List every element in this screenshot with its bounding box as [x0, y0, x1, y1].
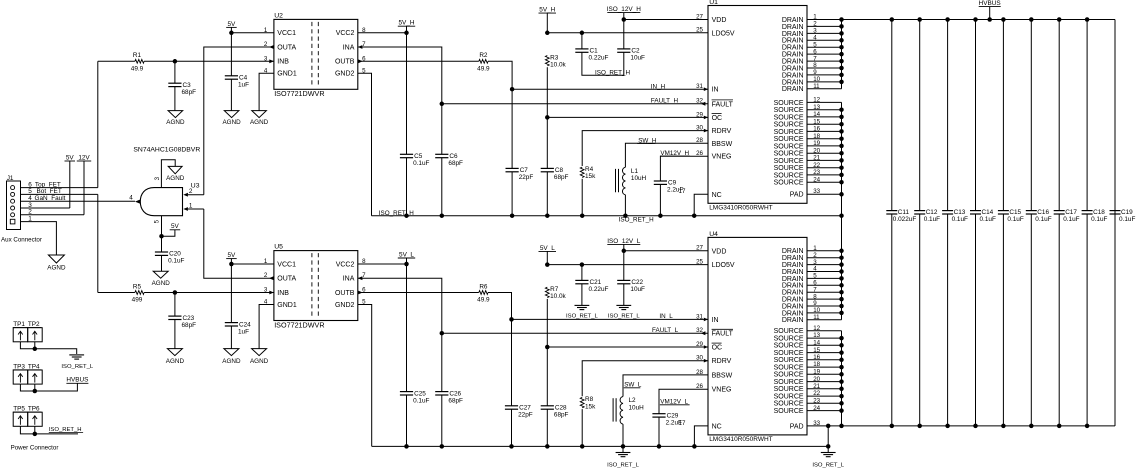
- junction R1 C3: [173, 59, 178, 64]
- wire J1 pin1 to AGND: [21, 222, 57, 255]
- wire 5V_L down to C25: [406, 264, 408, 392]
- svg-text:5V_L: 5V_L: [399, 251, 414, 258]
- wire BBSW_L to L2: [623, 375, 708, 397]
- wire FAULT_L row: [442, 332, 708, 334]
- U5 pin 3 INB arrow: [269, 291, 274, 295]
- junction C8 rail: [545, 213, 550, 218]
- junction U1 DRAIN 5: [839, 45, 844, 50]
- junction U4 DRAIN 9: [839, 304, 844, 309]
- U1 DRAIN pin stubs: [807, 20, 842, 89]
- svg-text:10uF: 10uF: [630, 286, 645, 293]
- junction C25 rail: [404, 444, 409, 449]
- test points TP3 TP4: [13, 363, 42, 384]
- svg-text:SOURCE: SOURCE: [774, 151, 804, 158]
- AND gate U3 body: [140, 183, 199, 216]
- junction C15 top: [1001, 17, 1006, 22]
- svg-text:25: 25: [696, 259, 703, 266]
- capacitor C8: [541, 167, 569, 181]
- wire L1 to rail: [624, 195, 626, 216]
- capacitor C18: [1082, 209, 1108, 223]
- wire U2 VCC2 to 5V_H: [358, 32, 407, 34]
- net label ISO_RET_H at C1 C2: [595, 69, 630, 76]
- svg-text:ISO_RET_H: ISO_RET_H: [379, 210, 414, 217]
- wire PAD riser: [827, 426, 829, 447]
- svg-text:C7: C7: [520, 167, 529, 174]
- resistor R5: [132, 283, 144, 303]
- resistor R4: [580, 166, 596, 180]
- junction 5V_L LDO5V: [545, 262, 550, 267]
- net flag HVBUS: [979, 0, 1001, 20]
- bus right edge vertical: [1114, 20, 1116, 426]
- svg-text:15k: 15k: [585, 403, 596, 410]
- junction NC rail: [692, 213, 697, 218]
- wire C16 bottom: [1030, 214, 1032, 426]
- wire C4 top: [230, 33, 232, 76]
- svg-text:TP6: TP6: [28, 406, 40, 413]
- ground ISO_RET_L at C22: [608, 305, 640, 319]
- svg-text:PAD: PAD: [790, 192, 804, 199]
- ground AGND at J1 pin1: [47, 255, 66, 272]
- svg-text:SOURCE: SOURCE: [774, 172, 804, 179]
- svg-text:10uF: 10uF: [630, 55, 645, 62]
- wire rail to ground stem at L2: [622, 446, 624, 452]
- svg-text:12V: 12V: [78, 154, 90, 161]
- capacitor C6: [435, 153, 463, 167]
- power connector caption: [11, 444, 59, 451]
- svg-text:NC: NC: [712, 192, 722, 199]
- U5 pin 2 OUTA arrow: [269, 276, 274, 280]
- svg-text:FAULT: FAULT: [712, 101, 734, 108]
- U3 pin 2 number: [189, 188, 193, 195]
- svg-text:26: 26: [696, 383, 703, 390]
- capacitor C4: [225, 75, 249, 89]
- capacitor C16: [1026, 209, 1052, 223]
- svg-text:10.0k: 10.0k: [550, 293, 566, 300]
- capacitor C9: [654, 180, 684, 194]
- wire U2 OUTA to U3 pin2: [204, 47, 274, 195]
- junction U1 SOURCE 23: [839, 180, 844, 185]
- wire rail to ground stem at rail end: [827, 446, 829, 452]
- wire C19 top: [1114, 20, 1116, 211]
- wire U4 NC to rail: [694, 426, 708, 447]
- resistor R6: [477, 283, 490, 303]
- junction U4 DRAIN 7: [839, 290, 844, 295]
- svg-text:0.1uF: 0.1uF: [1035, 216, 1051, 223]
- junction C12 bottom: [917, 424, 922, 429]
- junction C17 bottom: [1057, 424, 1062, 429]
- junction U4 DRAIN 10: [839, 311, 844, 316]
- svg-text:SOURCE: SOURCE: [774, 122, 804, 129]
- svg-text:SOURCE: SOURCE: [774, 357, 804, 364]
- U5 pin 6 OUTB arrow: [358, 291, 363, 295]
- U4 right pin names and numbers: [774, 245, 821, 430]
- svg-text:LDO5V: LDO5V: [712, 262, 735, 269]
- ground AGND at U5 GND1: [250, 349, 269, 366]
- svg-text:SOURCE: SOURCE: [774, 107, 804, 114]
- svg-text:BBSW: BBSW: [712, 372, 733, 379]
- junction R7 OC: [545, 345, 550, 350]
- svg-text:VDD: VDD: [712, 248, 727, 255]
- svg-text:C5: C5: [414, 153, 423, 160]
- svg-text:PAD: PAD: [790, 423, 804, 430]
- wire C16 top: [1030, 20, 1032, 211]
- capacitor C25: [400, 390, 430, 404]
- wire C19 bottom: [1114, 214, 1116, 426]
- wire J1 pin4 GaN_Fault to gate U3: [21, 200, 136, 202]
- ground ISO_RET_L at rail end: [812, 453, 844, 468]
- svg-text:TP3: TP3: [13, 363, 25, 370]
- svg-text:AGND: AGND: [250, 358, 269, 365]
- svg-text:C16: C16: [1037, 209, 1049, 216]
- svg-text:25: 25: [696, 27, 703, 34]
- junction L2 rail: [621, 444, 626, 449]
- capacitor C17: [1054, 209, 1080, 223]
- U1 SOURCE pin stubs: [807, 102, 842, 182]
- capacitor C29: [652, 412, 682, 426]
- wire TP2 stub: [34, 342, 36, 349]
- power flag 5V_L at U5: [398, 251, 415, 264]
- svg-text:Aux Connector: Aux Connector: [1, 236, 42, 243]
- wire R1 to U2 INB: [144, 60, 274, 62]
- test points TP1 TP2: [13, 321, 42, 342]
- svg-text:17: 17: [679, 188, 686, 195]
- capacitor C22: [617, 279, 645, 293]
- junction C7 rail: [510, 213, 515, 218]
- junction C17 top: [1057, 17, 1062, 22]
- junction U4 SOURCE 13: [839, 336, 844, 341]
- svg-text:68pF: 68pF: [554, 412, 569, 419]
- junction R6 IN_L: [509, 317, 514, 322]
- svg-text:10uH: 10uH: [629, 404, 645, 411]
- junction C18 top: [1085, 17, 1090, 22]
- power flag 5V at U5: [226, 252, 237, 264]
- svg-text:VCC2: VCC2: [336, 261, 355, 268]
- junction U1 SOURCE 19: [839, 151, 844, 156]
- net label SW_L: [624, 382, 642, 389]
- ground AGND at C3: [166, 111, 185, 127]
- svg-text:SOURCE: SOURCE: [774, 379, 804, 386]
- junction U4 SOURCE 20: [839, 387, 844, 392]
- wire C14 bottom: [975, 214, 977, 426]
- svg-text:68pF: 68pF: [182, 322, 197, 329]
- ground AGND at U3 pin3: [166, 166, 185, 182]
- svg-text:C1: C1: [590, 48, 599, 55]
- svg-text:GND1: GND1: [277, 302, 297, 309]
- svg-text:R5: R5: [133, 283, 142, 290]
- svg-text:0.22uF: 0.22uF: [589, 55, 609, 62]
- J1 pin numbers and net names: [28, 181, 65, 222]
- svg-text:U5: U5: [274, 244, 283, 251]
- svg-text:SOURCE: SOURCE: [774, 335, 804, 342]
- capacitor C1: [575, 48, 608, 62]
- svg-text:68pF: 68pF: [448, 397, 463, 404]
- svg-text:49.9: 49.9: [477, 66, 490, 73]
- svg-text:DRAIN: DRAIN: [782, 24, 804, 31]
- junction 5V C24: [229, 262, 234, 267]
- capacitor C11: [886, 209, 916, 223]
- svg-text:C8: C8: [555, 167, 564, 174]
- svg-text:17: 17: [679, 420, 686, 427]
- wire FAULT_H row: [442, 103, 708, 105]
- junction U4 SOURCE 14: [839, 343, 844, 348]
- svg-text:INA: INA: [343, 276, 355, 283]
- wire C5 to rail: [406, 158, 408, 216]
- power flag 5V_H at R3: [539, 7, 557, 33]
- svg-text:27: 27: [696, 245, 703, 252]
- svg-text:SOURCE: SOURCE: [774, 408, 804, 415]
- svg-text:AGND: AGND: [250, 119, 269, 126]
- junction U1 DRAIN 6: [839, 52, 844, 57]
- svg-text:0.022uF: 0.022uF: [893, 216, 917, 223]
- capacitor C7: [506, 167, 534, 181]
- junction R5 C23: [173, 290, 178, 295]
- svg-text:VNEG: VNEG: [712, 387, 732, 394]
- svg-text:R3: R3: [550, 54, 559, 61]
- svg-text:R8: R8: [585, 396, 594, 403]
- capacitor C12: [914, 209, 940, 223]
- junction 5V_H LDO5V: [545, 31, 550, 36]
- svg-text:ISO7721DWVR: ISO7721DWVR: [274, 320, 324, 329]
- junction U1 SOURCE 16: [839, 129, 844, 134]
- svg-text:C6: C6: [449, 153, 458, 160]
- svg-text:49.9: 49.9: [477, 297, 490, 304]
- wire OC row: [547, 116, 708, 118]
- junction U1 SOURCE 21: [839, 165, 844, 170]
- inductor L1: [616, 167, 647, 195]
- resistor R3: [545, 54, 566, 68]
- resistor R2: [477, 52, 490, 72]
- svg-text:5V: 5V: [66, 154, 75, 161]
- junction U1 SOURCE 18: [839, 144, 844, 149]
- wire C6 to rail: [441, 158, 443, 216]
- svg-text:OC: OC: [712, 115, 723, 122]
- svg-text:27: 27: [696, 13, 703, 20]
- junction 5V C4: [229, 31, 234, 36]
- svg-text:R7: R7: [550, 286, 559, 293]
- junction U4 DRAIN 1: [839, 249, 844, 254]
- svg-text:SOURCE: SOURCE: [774, 165, 804, 172]
- wire C17 bottom: [1058, 214, 1060, 426]
- capacitor C28: [541, 405, 569, 419]
- wire U3 pin 1 stub: [188, 208, 204, 210]
- wire C18 top: [1086, 20, 1088, 211]
- junction C21 LDO5V: [580, 262, 585, 267]
- svg-text:GND2: GND2: [335, 302, 355, 309]
- svg-text:R2: R2: [479, 52, 488, 59]
- wire C24 to AGND: [230, 326, 232, 349]
- svg-text:C3: C3: [183, 82, 192, 89]
- wire R8 to rail: [581, 409, 583, 446]
- net label IN_H: [651, 83, 666, 90]
- wire U5 VCC2 to 5V_L: [358, 263, 407, 265]
- svg-text:5V_H: 5V_H: [539, 7, 555, 14]
- junction C11 bottom: [890, 424, 895, 429]
- svg-text:ISO_RET_L: ISO_RET_L: [566, 314, 598, 320]
- junction C15 bottom: [1001, 424, 1006, 429]
- wire U3 pin 5 to 5V: [161, 216, 163, 237]
- svg-text:0.1uF: 0.1uF: [924, 216, 940, 223]
- svg-text:0.1uF: 0.1uF: [413, 397, 429, 404]
- svg-text:C23: C23: [183, 315, 195, 322]
- svg-text:29: 29: [696, 341, 703, 348]
- svg-text:3: 3: [154, 176, 161, 180]
- junction C16 top: [1029, 17, 1034, 22]
- junction C9 rail: [658, 213, 663, 218]
- svg-text:FAULT_L: FAULT_L: [652, 327, 679, 334]
- svg-text:NC: NC: [712, 423, 722, 430]
- capacitor C24: [225, 321, 251, 335]
- wire C22 top: [623, 251, 625, 281]
- U1 right pin names and numbers: [774, 14, 821, 199]
- wire C22 to ground: [623, 284, 625, 306]
- svg-text:DRAIN: DRAIN: [782, 86, 804, 93]
- wire 5V flag link: [162, 231, 175, 236]
- svg-text:AGND: AGND: [152, 280, 171, 287]
- wire C12 top: [919, 20, 921, 211]
- capacitor C2: [617, 48, 645, 62]
- test points TP5 TP6: [13, 406, 42, 427]
- wire TP3 TP4 to HVBUS: [20, 383, 77, 391]
- junction HVBUS stem: [987, 17, 992, 22]
- net label ISO_RET_L at TP1 TP2: [61, 364, 93, 370]
- svg-text:C28: C28: [555, 405, 567, 412]
- junction C5 rail: [404, 213, 409, 218]
- svg-text:OUTB: OUTB: [335, 290, 355, 297]
- net label FAULT_L: [652, 327, 679, 334]
- svg-text:30: 30: [696, 125, 703, 132]
- U4 OC pin arrow: [704, 345, 708, 349]
- capacitor C14: [970, 209, 996, 223]
- svg-text:L2: L2: [629, 397, 637, 404]
- svg-text:C26: C26: [449, 390, 461, 397]
- wire L2 to rail: [622, 424, 624, 446]
- svg-text:3: 3: [264, 55, 268, 62]
- svg-text:10uH: 10uH: [631, 175, 647, 182]
- U1 FAULT pin arrow: [701, 102, 706, 106]
- wire U5 INA to C26: [358, 278, 442, 391]
- wire switch node vertical: [841, 102, 843, 319]
- junction TP1-TP2: [33, 347, 38, 352]
- svg-text:0.1uF: 0.1uF: [168, 258, 184, 265]
- GaN power stage U1: [708, 0, 807, 212]
- svg-text:C2: C2: [631, 48, 640, 55]
- U4 IN pin arrow: [704, 318, 708, 322]
- svg-text:22pF: 22pF: [519, 174, 534, 181]
- net label SW_H underline: [637, 143, 655, 145]
- wire C15 bottom: [1002, 214, 1004, 426]
- svg-text:C14: C14: [982, 209, 994, 216]
- junction U1 SOURCE 20: [839, 158, 844, 163]
- svg-text:C25: C25: [414, 390, 426, 397]
- power flag 5V at J1: [65, 154, 76, 208]
- svg-text:FAULT_H: FAULT_H: [651, 97, 679, 104]
- wire C9 to rail: [659, 184, 661, 215]
- svg-text:49.9: 49.9: [131, 66, 144, 73]
- svg-text:0.1uF: 0.1uF: [952, 216, 968, 223]
- rail ISO_RET_L: [372, 445, 829, 447]
- svg-text:SOURCE: SOURCE: [774, 350, 804, 357]
- wire 5V_H down to C5: [406, 33, 408, 155]
- junction U1 SOURCE 13: [839, 107, 844, 112]
- junction U4 DRAIN 5: [839, 276, 844, 281]
- wire U3 pin 2 stub: [188, 194, 204, 196]
- svg-text:SOURCE: SOURCE: [774, 143, 804, 150]
- svg-text:J1: J1: [7, 175, 14, 182]
- junction U4 SOURCE 21: [839, 394, 844, 399]
- svg-text:AGND: AGND: [222, 358, 241, 365]
- wire Top_FET vertical: [97, 61, 99, 187]
- svg-text:5: 5: [153, 219, 160, 223]
- svg-text:TP4: TP4: [28, 363, 40, 370]
- svg-text:OUTA: OUTA: [277, 44, 296, 51]
- svg-text:DRAIN: DRAIN: [782, 317, 804, 324]
- svg-text:VCC1: VCC1: [277, 261, 296, 268]
- capacitor C21: [575, 279, 608, 293]
- wire RDRV to R4: [582, 131, 708, 166]
- wire J1 pin6 Top_FET stub: [21, 187, 98, 189]
- svg-text:ISO7721DWVR: ISO7721DWVR: [274, 89, 324, 98]
- wire VDD_L row: [624, 250, 708, 252]
- power flag 5V_H at U2: [398, 20, 415, 33]
- svg-text:ISO_12V_L: ISO_12V_L: [607, 238, 640, 245]
- svg-text:10.0k: 10.0k: [550, 62, 566, 69]
- wire IN_H row: [512, 88, 708, 90]
- svg-text:30: 30: [696, 355, 703, 362]
- svg-text:68pF: 68pF: [448, 160, 463, 167]
- svg-text:ISO_RET_L: ISO_RET_L: [812, 462, 844, 468]
- wire U2 INA to C6: [358, 47, 442, 154]
- power flag ISO_12V_L: [607, 238, 640, 251]
- wire RDRV_L to R8: [582, 361, 708, 397]
- junction U4 SOURCE 16: [839, 358, 844, 363]
- SN74AHC1G08DBVR part label: [133, 147, 200, 154]
- junction C26 rail: [440, 444, 445, 449]
- svg-text:SOURCE: SOURCE: [774, 100, 804, 107]
- junction U4 SOURCE 22: [839, 401, 844, 406]
- rail ISO_RET_H: [372, 215, 842, 217]
- svg-text:5V: 5V: [227, 21, 236, 28]
- net label SW_L underline: [624, 387, 641, 389]
- svg-text:OUTB: OUTB: [335, 59, 355, 66]
- svg-text:SOURCE: SOURCE: [774, 386, 804, 393]
- U4 SOURCE pin stubs: [807, 331, 842, 411]
- junction U1 SOURCE 15: [839, 122, 844, 127]
- junction C6 rail: [440, 213, 445, 218]
- junction C27 rail: [509, 444, 514, 449]
- wire U3 pin5 to C20: [161, 236, 163, 252]
- svg-text:0.1uF: 0.1uF: [1091, 216, 1107, 223]
- U3 pin 1 input arrow: [183, 207, 188, 211]
- junction U1 SOURCE 17: [839, 136, 844, 141]
- svg-text:IN: IN: [712, 87, 719, 94]
- svg-text:LDO5V: LDO5V: [712, 30, 735, 37]
- junction U1 DRAIN 10: [839, 80, 844, 85]
- isolator U2: [264, 12, 366, 98]
- svg-text:0.22uF: 0.22uF: [589, 286, 609, 293]
- wire U5 GND1 to AGND: [259, 305, 274, 349]
- junction U4 SOURCE bus PAD row: [839, 424, 844, 429]
- junction C18 bottom: [1085, 424, 1090, 429]
- junction TP3-TP4: [33, 389, 38, 394]
- svg-text:1: 1: [189, 203, 193, 210]
- capacitor C3: [168, 82, 196, 96]
- wire C11 top: [891, 20, 893, 211]
- svg-text:C29: C29: [667, 412, 679, 419]
- svg-text:SOURCE: SOURCE: [774, 401, 804, 408]
- svg-text:VDD: VDD: [712, 17, 727, 24]
- wire U2 OUTB to R2: [358, 60, 479, 62]
- svg-text:5V_L: 5V_L: [540, 245, 555, 252]
